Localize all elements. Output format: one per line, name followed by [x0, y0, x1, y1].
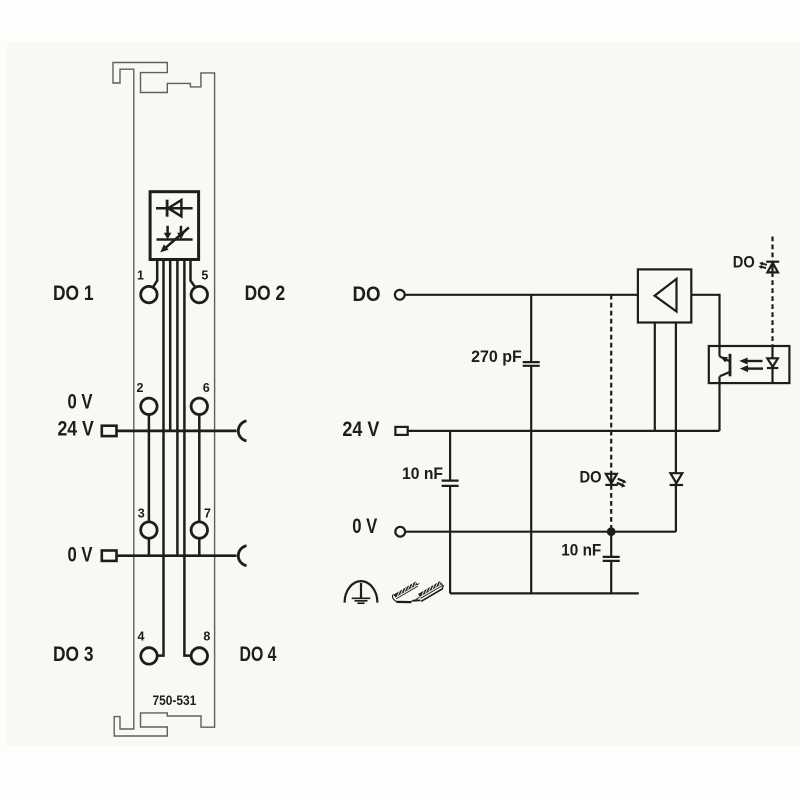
- wire box to terminal 8: [184, 260, 191, 656]
- 24V power jumper terminal (square): [102, 426, 117, 436]
- terminal 8: [191, 648, 207, 664]
- capacitor C2 10 nF: [442, 431, 459, 594]
- capacitor C3 10 nF: [603, 532, 620, 594]
- wire terminal 6 to terminal 7: [198, 415, 201, 522]
- diode D1 inside LED box: [156, 200, 193, 217]
- dashed link DO wire to status LED (middle): [610, 295, 612, 474]
- optocoupler light arrows: [739, 358, 763, 373]
- LED indicator box: [150, 192, 199, 260]
- 0V power jumper terminal (square): [102, 551, 117, 561]
- svg-text:24 V: 24 V: [58, 417, 95, 441]
- terminal 3: [141, 522, 157, 538]
- wire 24V rail: [408, 430, 720, 432]
- terminal 4: [141, 648, 157, 664]
- 24V power jumper rail: [117, 430, 237, 433]
- wire optocoupler to 24V rail: [718, 376, 720, 431]
- transistor Q1 (opto output): [720, 354, 731, 377]
- svg-text:DO 2: DO 2: [245, 281, 286, 305]
- wire box to terminal 1: [153, 260, 157, 288]
- op-amp U1 (output driver): [638, 269, 691, 322]
- wire box to 0V rail: [176, 260, 179, 556]
- terminal 2: [141, 398, 157, 414]
- dual LED symbol inside LED box: [157, 226, 193, 253]
- svg-text:10 nF: 10 nF: [402, 465, 443, 483]
- LED D5 status DO (middle): [605, 474, 626, 488]
- svg-text:DO: DO: [580, 469, 602, 487]
- terminal 5: [191, 286, 207, 302]
- svg-text:0 V: 0 V: [68, 390, 94, 414]
- svg-text:750-531: 750-531: [153, 692, 197, 708]
- LED D3 (opto emitter): [767, 346, 778, 383]
- wire earth rail: [450, 592, 639, 594]
- svg-text:DO 3: DO 3: [53, 642, 94, 666]
- 0V power jumper rail: [117, 554, 237, 557]
- terminal 7: [191, 522, 207, 538]
- wire box to 24V rail: [169, 260, 172, 431]
- module outline 750-531: [113, 63, 215, 737]
- wire driver output to optocoupler: [691, 295, 719, 357]
- svg-text:5: 5: [201, 269, 208, 283]
- wire driver leg to 24V rail: [654, 323, 656, 431]
- svg-text:8: 8: [203, 630, 210, 644]
- svg-text:DO: DO: [353, 282, 381, 306]
- DIN rail (carrier rail) symbol: [393, 581, 444, 603]
- terminal 1: [141, 286, 157, 302]
- svg-text:270 pF: 270 pF: [471, 348, 522, 366]
- terminal 6: [191, 398, 207, 414]
- wire terminal 3 to 0V rail: [148, 539, 151, 556]
- wire DO to driver: [405, 294, 638, 296]
- node junction dot 0V: [607, 527, 616, 536]
- optocoupler U2: [709, 346, 790, 383]
- svg-text:0 V: 0 V: [352, 514, 378, 538]
- wire box to terminal 5: [191, 260, 196, 288]
- diode D2: [670, 473, 684, 485]
- svg-text:3: 3: [138, 507, 145, 521]
- LED D4 status DO (top right): [758, 262, 779, 277]
- svg-text:1: 1: [137, 269, 144, 283]
- 24V jumper contact (right): [238, 421, 246, 441]
- node DO terminal: [395, 290, 405, 300]
- capacitor C1 270 pF: [523, 295, 540, 594]
- wire terminal 2 to terminal 3: [148, 415, 151, 522]
- dashed optical link to status LED DO (top right): [771, 237, 773, 262]
- svg-text:DO 1: DO 1: [53, 281, 94, 305]
- wire 0V rail: [405, 531, 676, 533]
- svg-text:24 V: 24 V: [342, 417, 380, 441]
- svg-text:DO: DO: [733, 254, 755, 272]
- 24V input terminal (square): [395, 427, 407, 435]
- 0V jumper contact (right): [238, 546, 246, 566]
- svg-text:6: 6: [203, 381, 210, 395]
- svg-text:0 V: 0 V: [68, 543, 94, 567]
- node 0V terminal: [395, 527, 405, 537]
- wire terminal 7 to 0V rail: [198, 539, 201, 556]
- svg-text:2: 2: [137, 381, 144, 395]
- wire box to terminal 4: [157, 260, 163, 656]
- svg-text:DO 4: DO 4: [240, 642, 277, 666]
- ground (earth) symbol: [345, 581, 378, 603]
- svg-text:7: 7: [204, 507, 211, 521]
- svg-text:4: 4: [138, 630, 145, 644]
- svg-text:10 nF: 10 nF: [561, 541, 601, 559]
- wire driver leg through diode to 0V rail: [675, 323, 677, 532]
